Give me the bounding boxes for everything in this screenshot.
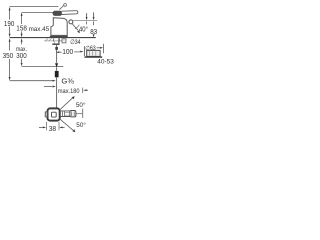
ref line 350 bottom: [10, 80, 53, 82]
svg-text:350: 350: [3, 51, 14, 60]
faucet base: [50, 36, 68, 38]
dim line max300 vertical below deck: [21, 42, 23, 63]
40deg stream line: [72, 24, 78, 31]
svg-text:50°: 50°: [76, 121, 86, 129]
plan view body: [48, 108, 60, 120]
svg-text:50°: 50°: [76, 101, 86, 109]
ref line max300 bottom: [22, 66, 64, 68]
svg-text:100: 100: [62, 47, 73, 56]
swivel 50 deg upper: [60, 98, 73, 110]
svg-text:∅34: ∅34: [70, 39, 81, 46]
lever hub dark: [53, 11, 62, 16]
deck line: [10, 37, 96, 39]
svg-text:40°: 40°: [79, 26, 88, 34]
max180 dim: [44, 86, 52, 88]
svg-text:G⅜: G⅜: [61, 78, 74, 85]
dim 100: [56, 51, 59, 53]
svg-text:max.180: max.180: [58, 88, 80, 95]
supply hose: [56, 45, 58, 63]
lever handle loop side view: [53, 11, 78, 15]
ref line top 190: [10, 6, 59, 8]
shank below deck: [54, 38, 60, 41]
svg-text:max.45: max.45: [29, 26, 50, 33]
spout outlet circle: [69, 20, 73, 24]
small connector under deck: [62, 39, 66, 43]
svg-text:190: 190: [4, 19, 14, 28]
dim line 158 vertical: [21, 16, 23, 34]
svg-text:300: 300: [16, 51, 26, 60]
svg-text:158: 158: [16, 23, 27, 32]
40deg angle arc: [75, 25, 79, 29]
83 dim detail top right: [73, 20, 97, 22]
faucet body side view: [51, 18, 67, 36]
arrowheads left dims: [9, 7, 56, 82]
extension bar right plan: [82, 109, 84, 118]
swivel 50 deg lower: [60, 119, 73, 130]
deck hatching: [45, 38, 66, 41]
lever pin marker: [59, 5, 63, 9]
ref line 158: [22, 12, 53, 14]
plan view lever: [60, 111, 70, 117]
dim 38: [46, 122, 59, 130]
svg-text:40-53: 40-53: [97, 58, 114, 65]
svg-text:38: 38: [49, 124, 56, 133]
dim line 190/350 vertical: [9, 9, 11, 78]
